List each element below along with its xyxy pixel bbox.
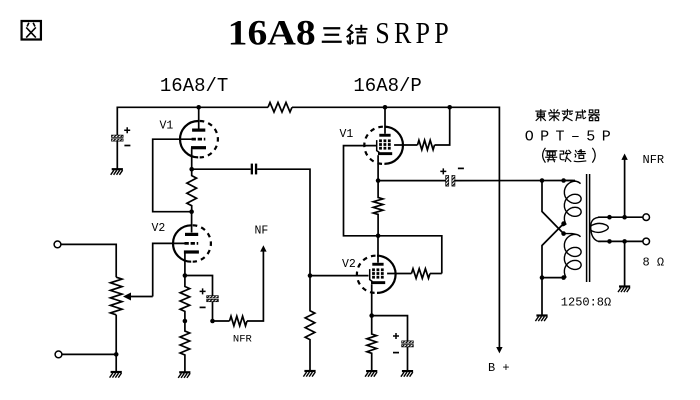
svg-text:V2: V2: [152, 222, 166, 235]
wire output node to coupling electrolytic: [378, 180, 445, 182]
junction V1 cathode node: [189, 167, 194, 172]
junction power SRPP mid node: [376, 234, 381, 239]
wire input cold to ground node: [62, 353, 116, 355]
junction SRPP mid node: [189, 209, 194, 214]
label (kanji) zu = figure: [22, 21, 41, 39]
ground: [618, 287, 630, 293]
svg-text:16A8/T: 16A8/T: [160, 75, 228, 97]
svg-text:V1: V1: [160, 119, 174, 132]
transformer OPT primary left rail upper: [542, 181, 564, 234]
B+ arrowhead: [496, 347, 502, 353]
ground: [535, 316, 547, 322]
wire grid node to V2 pentode grid: [310, 275, 369, 277]
wire V2 cathode lead: [184, 254, 186, 276]
junction rail / screen feed: [447, 105, 452, 110]
pot wiper arrow: [123, 293, 131, 301]
ground: [303, 371, 315, 377]
inductor OPT secondary lens loop: [590, 223, 608, 232]
resistor (power SRPP cathode R): [373, 181, 383, 236]
svg-text:16A8: 16A8: [228, 13, 316, 53]
wire V2 plate lead: [191, 212, 193, 233]
resistor (V1 screen): [418, 140, 435, 150]
wire V1 plate from rail: [384, 107, 386, 134]
resistor (B+ decoupling): [268, 103, 292, 113]
wire screen resistor to riser: [430, 273, 442, 275]
label (kanji) needs modification: [543, 148, 545, 162]
wire rail continues to B+ drop: [292, 107, 499, 347]
inductor OPT primary lower winding: [563, 234, 581, 279]
resistor (lower leg to ground): [180, 321, 190, 372]
junction bias node: [183, 319, 188, 324]
svg-text:V1: V1: [340, 128, 354, 141]
junction V2 cathode node: [183, 273, 188, 278]
NF arrowhead: [260, 245, 266, 251]
wire V2 plate lead: [377, 236, 379, 263]
transformer OPT crossing diagonal: [542, 224, 564, 278]
inductor OPT secondary winding: [591, 217, 601, 241]
tube V1 16A8/T upper triode: [180, 121, 218, 157]
capacitor (power cathode bypass, electrolytic) with +/-: [393, 333, 413, 353]
tube V2 16A8/P lower pentode: [357, 256, 396, 293]
resistor (V2 screen): [412, 269, 431, 279]
svg-text:8 Ω: 8 Ω: [643, 256, 665, 270]
title kanji san-ketsu (triode-connected): [323, 28, 341, 42]
resistor (grid leak): [305, 276, 315, 371]
resistor (V2 cathode bias): [367, 316, 377, 372]
resistor (V2 cathode bias R): [180, 276, 190, 322]
junction rail / V1 plate: [196, 105, 201, 110]
junction secondary leads: [607, 215, 627, 244]
ground: [401, 371, 413, 377]
wire screen resistor to rail: [435, 107, 450, 145]
wire cathode node to bypass cap: [185, 276, 213, 296]
wire secondary top lead: [598, 216, 643, 218]
terminal speaker +: [643, 214, 650, 221]
svg-text:NFR: NFR: [643, 153, 665, 167]
wire V1 screen lead to screen resistor: [394, 144, 417, 146]
wire bypass cap to bias node: [212, 302, 214, 321]
ground: [110, 372, 122, 378]
junction power grid node: [308, 273, 313, 278]
wire NFR to NF arrow: [247, 251, 263, 321]
junction V2 power cathode node: [369, 313, 374, 318]
wire V2 screen lead: [387, 273, 411, 275]
wire plate lead V1 from rail: [198, 107, 200, 128]
svg-text:V2: V2: [342, 258, 356, 271]
svg-text:NF: NF: [255, 225, 269, 238]
ground: [178, 372, 190, 378]
svg-text:16A8/P: 16A8/P: [353, 75, 421, 97]
wire B+ rail with decoupling resistor gap: [117, 107, 268, 135]
terminal input hot: [54, 241, 61, 248]
inductor OPT primary upper winding: [563, 181, 581, 226]
wire OPT primary to ground: [541, 278, 543, 316]
wire wiper to V2 grid riser: [131, 296, 153, 298]
junction ground node: [114, 352, 119, 357]
wire OPT primary bottom lead: [542, 277, 564, 279]
svg-text:SRPP: SRPP: [375, 16, 453, 51]
terminal speaker -: [643, 238, 650, 245]
wire V1 cathode lead: [377, 155, 379, 180]
wire V1 cathode lead: [191, 149, 193, 169]
capacitor (interstage coupling film cap): [251, 164, 257, 175]
ground: [111, 169, 123, 175]
wire secondary bottom lead: [598, 240, 643, 242]
svg-text:1250:8Ω: 1250:8Ω: [561, 296, 611, 310]
wire input to pot top: [61, 244, 116, 277]
svg-text:NFR: NFR: [233, 334, 253, 346]
tube V2 16A8/T lower triode: [173, 225, 211, 261]
svg-text:B +: B +: [488, 361, 510, 375]
resistor (SRPP cathode R): [187, 169, 197, 212]
tube V1 16A8/P upper pentode: [364, 127, 403, 164]
wire pot bottom to ground node: [115, 315, 117, 372]
terminal input cold: [55, 351, 62, 358]
potentiometer (volume): [110, 277, 122, 315]
wire coupling cap to OPT primary top: [455, 180, 575, 182]
transformer core: [587, 174, 590, 282]
wire mid node to V2 screen resistor riser: [378, 236, 442, 274]
junction OPT nodes: [540, 178, 566, 280]
svg-text:OPT–5P: OPT–5P: [525, 128, 617, 145]
junction rail / V1 power plate: [383, 105, 388, 110]
wire coupling cap to power stage grid: [257, 169, 310, 275]
wire V1 grid lead + SRPP feedback to lower plate node: [153, 139, 192, 212]
ground: [365, 371, 377, 377]
junction V1 power cathode node (output): [376, 178, 381, 183]
wire V1 pentode grid to SRPP mid node: [344, 146, 379, 236]
wire V2 grid lead from volume wiper: [153, 243, 185, 296]
wire cathode node to bypass cap: [372, 316, 408, 341]
wire secondary to ground: [624, 241, 626, 286]
wire bias node to NFR resistor: [213, 320, 230, 322]
capacitor (output coupling, electrolytic) with +/-: [440, 168, 464, 186]
resistor NFR (feedback): [230, 316, 248, 326]
wire bypass cap to ground: [407, 347, 409, 371]
label kanji Toei transformer maker: [536, 110, 546, 121]
wire V1 cathode to coupling cap: [192, 168, 251, 170]
wire NFR take-off arrow up: [624, 160, 626, 218]
junction bypass cap / NFR node: [210, 319, 215, 324]
wire cap to ground: [116, 141, 118, 169]
capacitor C (PSU filter, electrolytic) with +/-: [112, 127, 131, 145]
wire V2 cathode lead: [371, 284, 373, 315]
capacitor (cathode bypass, electrolytic) with +/-: [200, 288, 219, 307]
